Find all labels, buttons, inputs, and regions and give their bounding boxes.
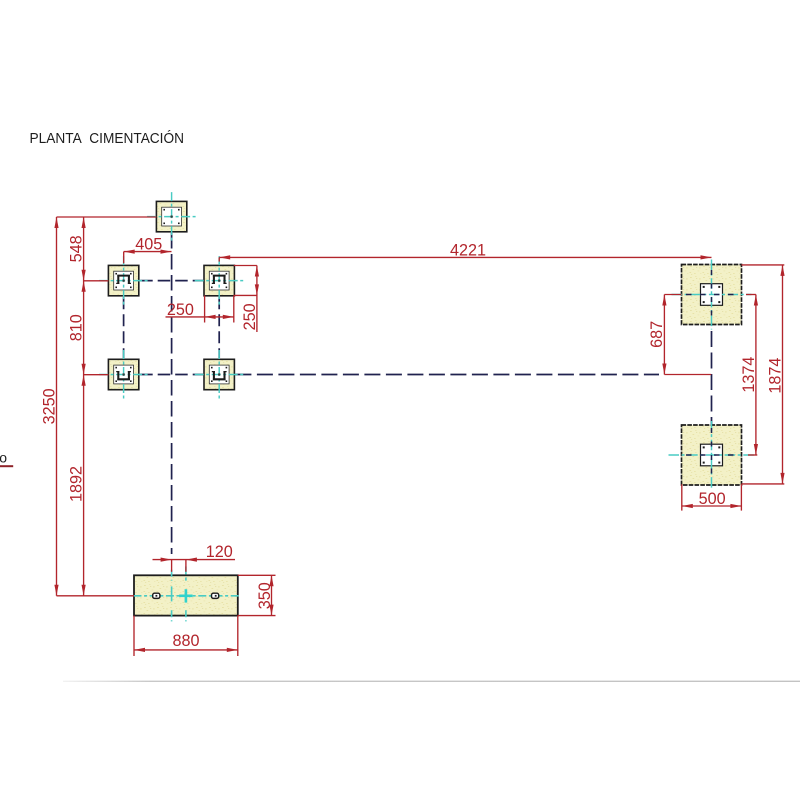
pad P1 rebar detail <box>163 209 179 224</box>
dimension 250v arrow bottom <box>255 284 259 295</box>
dimension 120 ext right <box>185 560 187 572</box>
centerline cross pad P1 <box>147 192 196 241</box>
dimension 250h arrow left <box>205 315 216 319</box>
dimension 4221 arrow right <box>701 255 712 259</box>
extension line P3 center <box>84 374 109 376</box>
truncated left-edge red underline <box>0 465 13 467</box>
dimension 350 arrow top <box>269 575 273 586</box>
grid line vertical C (x=219.2 P4-P5) <box>218 297 220 358</box>
dimension 687 arrow bottom <box>662 364 666 375</box>
centerline cross pad P4 <box>195 256 244 305</box>
footing pad P6 body <box>682 265 742 325</box>
extension line P2 center <box>84 280 109 282</box>
pad P1 body <box>156 201 186 231</box>
dimension 250h text <box>167 301 194 319</box>
dimension 810 text <box>67 314 85 341</box>
dimension 810 arrow bottom <box>82 364 86 375</box>
footing pad P7 body <box>682 425 742 485</box>
dimension 1892 arrow top <box>82 375 86 386</box>
dimension 880 line <box>134 649 238 651</box>
svg-text:250: 250 <box>167 301 194 319</box>
svg-text:3250: 3250 <box>40 388 58 424</box>
centerline navy overlay P6 vertical <box>711 270 713 322</box>
dimension 1374 line <box>755 295 757 456</box>
dimension 548 text <box>67 235 85 262</box>
grid line horizontal row2 long (P5 to D) <box>235 374 659 376</box>
pad P7 rebar dots <box>703 446 721 463</box>
svg-text:PLANTA CIMENTACIÓN: PLANTA CIMENTACIÓN <box>30 130 185 147</box>
dimension 250h arrow right <box>223 315 234 319</box>
svg-text:1374: 1374 <box>740 357 758 393</box>
dimension 687 text <box>648 321 666 348</box>
dimension 120 line <box>153 559 236 561</box>
centerline cross pad P6 <box>672 260 752 330</box>
svg-text:810: 810 <box>67 314 85 341</box>
dimension 880 arrow left <box>134 648 145 652</box>
centerline cross pad P7 <box>669 421 755 489</box>
dimension 1374 arrow bottom <box>754 444 758 455</box>
dimension 405 ext left <box>123 252 125 264</box>
dimension 810 arrow top <box>82 281 86 292</box>
strip footing centerline vertical x=185.9 below <box>185 610 187 621</box>
dimension 4221 arrow left <box>219 255 230 259</box>
strip footing centerline vertical x=185.9 above <box>185 567 187 581</box>
svg-text:1892: 1892 <box>67 466 85 502</box>
dimension 120 arrow right <box>186 558 197 562</box>
strip footing centerline horizontal <box>134 595 241 597</box>
strip footing centerline vertical x=171.6 mid <box>171 586 173 601</box>
dimension 250v arrow top <box>255 266 259 277</box>
grid line horizontal row1 (P2-P4) <box>140 280 203 282</box>
svg-text:o: o <box>0 449 7 465</box>
dimension 350 ext top <box>238 574 276 576</box>
centerline cross pad P5 <box>195 350 244 399</box>
centerline navy overlay P6 horizontal <box>686 294 737 296</box>
centerline navy overlay P7 horizontal <box>686 454 737 456</box>
dimension 500 arrow left <box>682 504 693 508</box>
pad P4 rebar detail <box>211 273 227 288</box>
dimension 350 text <box>256 582 274 609</box>
grid line vertical B (x=171.6 P1 to footing) <box>171 233 173 554</box>
dimension 250h ext right <box>233 295 235 322</box>
dimension 3250 arrow bottom <box>54 585 58 596</box>
dimension 350 arrow bottom <box>269 605 273 616</box>
dimension 1892 arrow bottom <box>82 585 86 596</box>
svg-text:687: 687 <box>648 321 666 348</box>
pad P5 body <box>204 359 234 389</box>
dimension 687 line <box>663 295 665 375</box>
dimension 3250 line <box>56 217 58 596</box>
dimension 687 arrow top <box>662 295 666 306</box>
dimension 4221 text <box>450 241 486 259</box>
strip footing centerline vertical x=171.6 above <box>171 570 173 581</box>
dimension 1874 arrow bottom <box>780 473 784 484</box>
page separator gray line <box>63 681 800 682</box>
dimension 405 arrow left <box>124 250 135 254</box>
dimension 880 ext left <box>133 616 135 656</box>
dimension 250h line <box>166 316 234 318</box>
dimension 687 ext top <box>664 294 681 296</box>
dimension 120 ext left <box>171 560 173 572</box>
dimension 548 arrow bottom <box>82 270 86 281</box>
extension line P1 center <box>57 216 157 218</box>
dimension 3250 arrow top <box>54 217 58 228</box>
grid line horizontal row2 (P3-P5) <box>140 374 203 376</box>
grid line vertical D (x=711.5 P6-P7) <box>711 267 713 456</box>
dimension 500 arrow right <box>730 504 741 508</box>
dimension 1874 line <box>782 265 784 484</box>
dimension 500 text <box>699 490 726 508</box>
strip footing <box>134 575 238 615</box>
dimension 405 line <box>124 251 172 253</box>
anchor bolt left <box>153 593 160 598</box>
dimension 250v text <box>241 303 259 330</box>
svg-text:500: 500 <box>699 490 726 508</box>
dimension 120 arrow left <box>161 558 172 562</box>
dimension 4221 line <box>219 256 711 258</box>
dimension 1374 ext top <box>746 294 756 296</box>
svg-text:350: 350 <box>256 582 274 609</box>
dimension 1874 arrow top <box>780 265 784 276</box>
svg-text:250: 250 <box>241 303 259 330</box>
extension line footing center <box>57 595 135 597</box>
title PLANTA CIMENTACION <box>30 130 185 147</box>
dimension 1874 ext bottom <box>742 483 785 485</box>
dimension 500 ext left <box>681 484 683 510</box>
truncated left-edge label "o" <box>0 449 7 465</box>
centerline cross pad P3 <box>99 350 148 399</box>
pad P5 rebar detail <box>211 367 227 382</box>
svg-text:120: 120 <box>206 543 233 561</box>
svg-text:405: 405 <box>135 236 162 254</box>
pad P3 body <box>108 359 138 389</box>
pad P4 body <box>204 265 234 295</box>
pad P2 body <box>108 265 138 295</box>
dimension chain line <box>83 217 85 596</box>
dimension 1892 text <box>67 466 85 502</box>
dimension 250v line <box>256 266 258 333</box>
centerline cross pad P2 <box>99 256 148 305</box>
dimension 4221 ext left <box>218 257 220 261</box>
dimension 1374 text <box>740 357 758 393</box>
centerline navy overlay P7 vertical <box>711 428 713 478</box>
strip footing centerline vertical x=171.6 below <box>171 610 173 621</box>
anchor bolt right <box>212 593 219 598</box>
dimension 1874 text <box>766 358 784 394</box>
dimension 250v ext top <box>234 265 257 267</box>
pad P6 rebar dots <box>703 286 721 303</box>
pad P3 rebar detail <box>115 367 131 382</box>
dimension 880 text <box>172 632 199 650</box>
svg-text:548: 548 <box>67 235 85 262</box>
svg-text:4221: 4221 <box>450 241 486 259</box>
pad P2 rebar detail <box>115 273 131 288</box>
svg-text:1874: 1874 <box>766 358 784 394</box>
dimension 880 arrow right <box>227 648 238 652</box>
dimension 500 line <box>682 505 742 507</box>
dimension 880 ext right <box>237 616 239 656</box>
dimension 350 ext bottom <box>238 615 276 617</box>
dimension 687 ext bottom <box>664 374 711 376</box>
dimension 350 line <box>271 575 273 615</box>
dimension 120 text <box>206 543 233 561</box>
dimension 1374 arrow top <box>754 295 758 306</box>
svg-text:880: 880 <box>172 632 199 650</box>
strip footing center cross <box>179 589 192 602</box>
dimension 548 arrow top <box>82 217 86 228</box>
dimension 405 text <box>135 236 162 254</box>
dimension 3250 text <box>40 388 58 424</box>
dimension 405 arrow right <box>161 250 172 254</box>
dimension 250h ext left <box>204 295 206 322</box>
dimension 500 ext right <box>740 484 742 510</box>
dimension 1874 ext top <box>742 264 785 266</box>
dimension 1374 ext bottom <box>748 454 757 456</box>
grid line vertical A (x=123.6 P2-P3) <box>123 297 125 358</box>
dimension 250v ext bottom <box>234 294 257 296</box>
